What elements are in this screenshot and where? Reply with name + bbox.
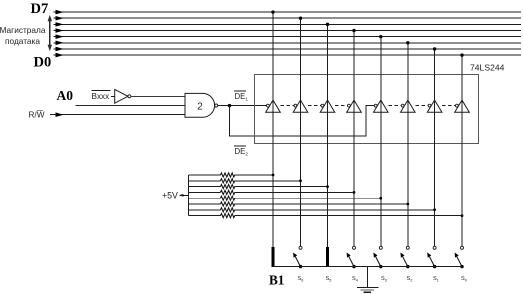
ground [357,267,379,293]
switch S4 open lever [373,246,382,268]
wire enable dash between buffers 6 and 7 [415,105,428,107]
wire enable dash between buffers 5 and 6 [388,105,401,107]
svg-text:R/W: R/W [29,111,45,120]
buffer U3g (D1) [427,100,442,112]
buffer U3c (D5) [320,100,335,112]
wire R/W to gate U2 [50,112,185,117]
net label DE1 (overlined) [234,91,248,101]
switch S0 closed (thick bar) [272,247,275,267]
wire data line D7 vertical to switch 1 [271,10,274,247]
buffer U3d (D4) [347,100,362,112]
switch S1 open lever [293,246,302,268]
switch S2 closed (thick bar) [326,247,329,267]
buffer U3h (D0) [455,100,470,112]
svg-text:+5V: +5V [162,191,178,201]
inverter U1 [115,89,128,103]
resistor R7 pullup line 7 [189,208,437,212]
junction node DE [228,104,231,107]
bus extent double arrow [48,15,52,52]
wire data line D6 vertical to switch 2 [299,17,302,247]
wire data line D3 vertical to switch 5 [379,35,382,246]
svg-text:Магистрала: Магистрала [0,25,46,35]
svg-text:S6: S6 [298,276,304,282]
IC 74LS244 outline [255,74,479,143]
svg-text:S1: S1 [433,276,439,282]
bus name Магистрала података [0,25,46,46]
buffer U3a (D7) [266,100,281,112]
resistor R4 pullup line 4 [189,190,356,194]
wire bus line D2 [54,41,522,46]
wire enable dash between buffers 7 and 8 [442,105,455,107]
wire bus line D0 [54,53,522,58]
svg-text:DE1: DE1 [235,92,249,102]
wire data line D1 vertical to switch 7 [433,47,436,246]
svg-text:S4: S4 [352,276,358,282]
wire inverter output to gate U2 [131,95,185,97]
wire +5V stub with arrow [179,194,189,197]
resistor R6 pullup line 6 [189,202,410,206]
svg-text:S5: S5 [326,276,332,282]
wire gate output to enable node and buffer 1 [218,105,267,107]
wire bus line D5 [54,22,522,27]
wire data line D5 vertical to switch 3 [326,23,329,248]
resistor R8 pullup line 8 [189,214,464,218]
resistor R2 pullup line 2 [189,179,302,183]
NAND gate U2 output bubble [215,104,218,107]
wire bus line D6 [54,16,522,21]
wire Bxxx to inverter input [111,95,115,97]
buffer U3b (D6) [293,100,308,112]
inverter U1 output bubble [128,95,131,98]
net label DE2 (overlined) [234,146,248,156]
svg-text:74LS244: 74LS244 [470,62,505,72]
svg-text:B1: B1 [269,272,284,287]
NAND gate U2 [185,93,215,117]
wire enable dash between buffers 1 and 2 [281,105,294,107]
buffer U3e (D3) [374,100,389,112]
switch S5 open lever [400,246,409,268]
switch S3 open lever [347,246,356,268]
switch S6 open lever [427,246,436,268]
resistor R5 pullup line 5 [189,196,383,200]
wire bus line D7 [54,10,522,15]
signal label Bxxx (overlined) [92,91,111,101]
svg-text:S0: S0 [461,276,467,282]
svg-text:података: података [5,36,40,46]
wire DE2 from junction to buffer group 2 [230,106,375,137]
svg-text:S3: S3 [381,276,387,282]
wire switch common bottom [273,266,462,268]
wire data line D0 vertical to switch 8 [460,53,463,246]
wire enable dash between buffers 2 and 3 [308,105,321,107]
wire data line D4 vertical to switch 4 [352,29,355,246]
wire bus line D1 [54,47,522,52]
wire +5V vertical bus [188,175,190,216]
wire enable dash between buffers 3 and 4 [335,105,347,107]
svg-text:2: 2 [197,101,203,112]
buffer U3f (D2) [401,100,416,112]
svg-text:Bxxx: Bxxx [92,92,110,101]
resistor R3 pullup line 3 [189,185,329,189]
svg-text:DE2: DE2 [235,147,249,157]
switch S7 open lever [455,246,464,268]
svg-text:S2: S2 [407,276,413,282]
svg-text:A0: A0 [57,88,74,103]
wire bus line D3 [54,34,522,39]
node R/W label [29,111,45,120]
wire data line D2 vertical to switch 6 [406,41,409,246]
resistor R1 pullup line 1 [189,173,275,177]
svg-text:D0: D0 [34,55,52,71]
wire bus line D4 [54,28,522,33]
svg-text:D7: D7 [31,1,49,17]
wire A0 to gate U2 [76,105,186,107]
